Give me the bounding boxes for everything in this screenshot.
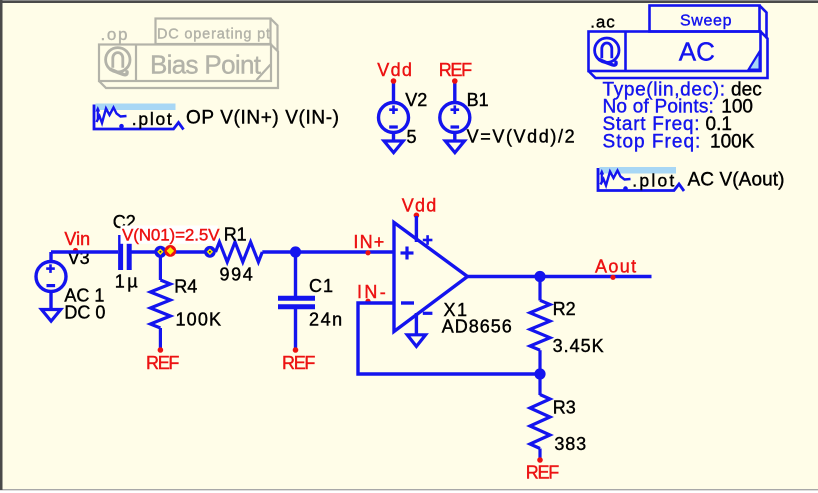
- .plot OP directive icon: [94, 104, 184, 130]
- svg-text:100K: 100K: [710, 132, 755, 153]
- R2 designator and value: [553, 299, 604, 356]
- wire junction to op-amp IN+: [296, 250, 395, 253]
- svg-text:AC V(Aout): AC V(Aout): [688, 170, 785, 191]
- svg-text:REF: REF: [439, 60, 472, 80]
- svg-text:.op: .op: [101, 25, 128, 44]
- feedback wire IN- to R2/R3 junction: [358, 303, 540, 374]
- svg-text:AD8656: AD8656: [442, 316, 512, 336]
- svg-text:Vdd: Vdd: [402, 196, 437, 216]
- svg-text:IN-: IN-: [357, 282, 388, 302]
- node REF (R4 bottom): [146, 347, 179, 373]
- Q logo (gray): [106, 48, 130, 75]
- svg-text:REF: REF: [146, 353, 179, 373]
- svg-text:DC 0: DC 0: [64, 302, 105, 322]
- svg-text:V2: V2: [405, 90, 427, 110]
- DC operating pt block: [156, 19, 278, 52]
- node IN+ label: [353, 232, 385, 255]
- .op directive: [101, 25, 128, 44]
- node Vin label: [64, 229, 90, 253]
- svg-text:R2: R2: [553, 299, 576, 319]
- svg-text:.ac: .ac: [590, 13, 615, 32]
- node REF (C1 bottom): [282, 347, 315, 373]
- svg-text:V(N01)=2.5V: V(N01)=2.5V: [122, 226, 220, 245]
- voltage source V3: [36, 252, 66, 321]
- junction at R2 top: [534, 271, 545, 282]
- svg-text:REF: REF: [526, 463, 559, 483]
- .plot OP text: [132, 108, 339, 130]
- svg-text:OP V(IN+) V(IN-): OP V(IN+) V(IN-): [186, 108, 339, 129]
- svg-text:Vin: Vin: [64, 229, 90, 249]
- svg-text:5: 5: [407, 127, 417, 147]
- AC sweep parameters text: [603, 79, 762, 152]
- svg-text:3.45K: 3.45K: [553, 336, 604, 356]
- resistor R2: [530, 277, 550, 375]
- AC sweep block: [589, 6, 768, 79]
- svg-text:C1: C1: [309, 276, 334, 296]
- capacitor C1: [278, 252, 315, 350]
- wire R1 to junction: [262, 250, 295, 253]
- wire C2 to node N01: [132, 250, 157, 253]
- behavioral source B1: [440, 82, 470, 153]
- Bias Point block: [99, 45, 278, 89]
- R4 designator and value: [174, 277, 221, 330]
- node marker at R1 input: [204, 246, 216, 258]
- V2 designator and value 5: [405, 90, 427, 147]
- node marker N01: [154, 246, 166, 258]
- svg-text:24n: 24n: [309, 310, 342, 330]
- svg-text:DC operating pt: DC operating pt: [157, 27, 270, 43]
- node N01 annotation V(N01)=2.5V: [121, 226, 221, 245]
- svg-text:B1: B1: [467, 90, 489, 110]
- .plot AC text: [632, 170, 784, 191]
- svg-text:383: 383: [554, 434, 586, 454]
- node REF (R3 bottom): [526, 457, 559, 482]
- Q logo (blue): [595, 38, 619, 65]
- svg-text:IN+: IN+: [353, 232, 385, 252]
- node REF label (B1): [439, 60, 472, 84]
- voltage source V2: [379, 82, 409, 153]
- resistor R1: [216, 242, 263, 262]
- svg-text:R1: R1: [224, 224, 247, 244]
- svg-text:Stop Freq:: Stop Freq:: [603, 132, 701, 153]
- X1 designator and part number: [442, 300, 512, 336]
- R3 designator and value: [553, 397, 586, 454]
- .plot AC directive icon: [598, 167, 684, 191]
- svg-text:R3: R3: [553, 397, 576, 417]
- wire op-amp output to Aout: [468, 275, 652, 278]
- resistor R4: [150, 256, 170, 350]
- op-amp ground pin: [407, 313, 425, 346]
- node Aout label: [595, 256, 636, 280]
- junction at C1: [290, 246, 301, 257]
- resistor R3: [530, 374, 550, 459]
- op-amp X1: [394, 223, 468, 332]
- svg-text:Sweep: Sweep: [680, 13, 732, 30]
- R1 designator and value: [220, 224, 253, 284]
- probe marker (red) on node N01: [164, 245, 176, 257]
- svg-text:AC: AC: [679, 36, 715, 66]
- op-amp Vdd pin: [402, 196, 437, 243]
- svg-text:REF: REF: [282, 353, 315, 373]
- V3 designator and values: [64, 248, 105, 322]
- svg-text:Vdd: Vdd: [377, 60, 412, 80]
- node Vdd label: [377, 60, 412, 84]
- wire node N01 to R1: [160, 250, 210, 253]
- B1 designator and value: [467, 90, 575, 147]
- junction at R2/R3: [534, 368, 545, 379]
- C1 designator and value: [309, 276, 342, 330]
- node IN- label: [357, 282, 388, 304]
- svg-text:R4: R4: [174, 277, 197, 297]
- svg-text:994: 994: [220, 265, 253, 285]
- svg-text:Bias Point: Bias Point: [150, 50, 262, 80]
- capacitor C2: [121, 235, 130, 270]
- wire V3 to C2: [51, 250, 118, 253]
- .ac directive: [590, 13, 615, 32]
- svg-text:V=V(Vdd)/2: V=V(Vdd)/2: [467, 127, 575, 147]
- svg-text:100K: 100K: [176, 309, 222, 329]
